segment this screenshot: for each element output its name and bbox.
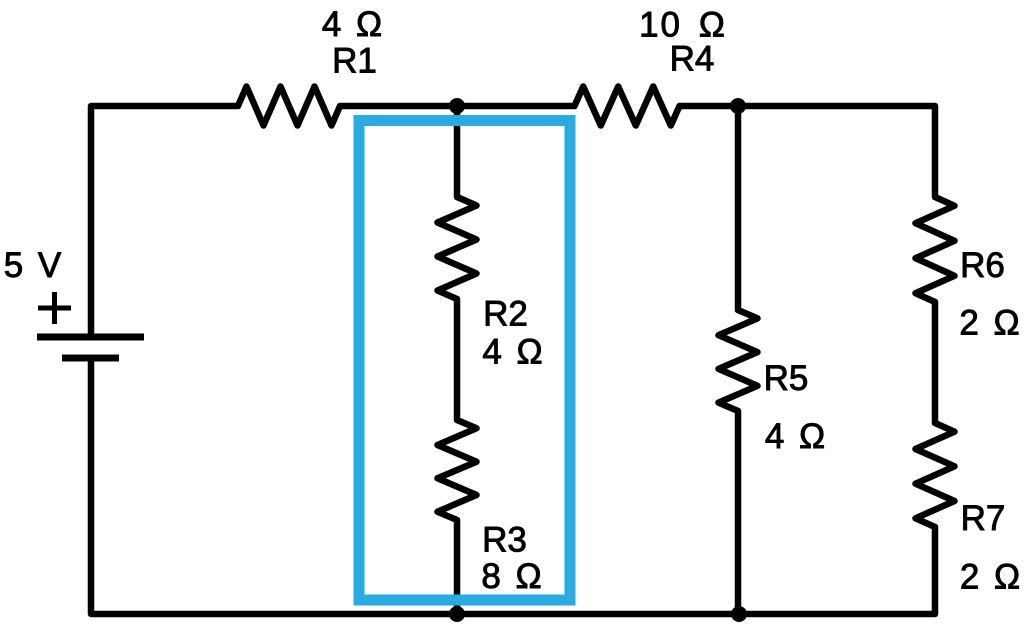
wire from R5 down to node D [735, 419, 742, 614]
wire between R2 and R3 [454, 307, 461, 412]
resistor R2 [438, 189, 477, 307]
resistor R6 [916, 189, 955, 310]
svg-text:R6: R6 [960, 246, 1005, 285]
wire from R3 down to node C [454, 528, 461, 614]
svg-text:4 Ω: 4 Ω [322, 5, 382, 44]
battery V1 plus sign [38, 292, 71, 324]
svg-text:R7: R7 [961, 499, 1006, 538]
svg-text:2 Ω: 2 Ω [959, 304, 1019, 343]
svg-text:R4: R4 [670, 40, 715, 79]
wire from node A down to R2 [454, 106, 461, 189]
node C junction dot bottom of R2 branch [449, 606, 465, 622]
svg-text:R2: R2 [483, 295, 528, 334]
resistor R4 [566, 87, 688, 126]
resistor R1 [230, 87, 348, 126]
svg-text:R5: R5 [764, 359, 809, 398]
wire top rail from R4 through node B, top-right corner, right rail down to R6 [688, 106, 935, 189]
svg-text:R1: R1 [332, 42, 377, 81]
battery V1 short plate [62, 355, 119, 362]
wire left rail upper and top-left corner to R1 [91, 106, 230, 337]
node B junction dot top of R5 branch [730, 98, 746, 114]
resistor R3 [438, 412, 477, 528]
wire left rail lower, bottom rail, bottom-right corner up to R7 [91, 358, 935, 614]
wire right rail between R6 and R7 [932, 310, 939, 415]
svg-text:4 Ω: 4 Ω [765, 417, 825, 456]
highlight box around R2 R3 branch [359, 121, 570, 601]
svg-text:5 V: 5 V [4, 246, 62, 285]
svg-text:2 Ω: 2 Ω [960, 558, 1020, 597]
wire top rail between R1 and R4 through node A [348, 103, 566, 110]
resistor R7 [916, 415, 955, 535]
node D junction dot bottom of R5 branch [731, 606, 747, 622]
battery V1 long plate [37, 334, 144, 341]
resistor R5 [719, 302, 758, 419]
svg-text:8 Ω: 8 Ω [481, 557, 541, 596]
svg-text:R3: R3 [482, 521, 527, 560]
wire from node B down to R5 [735, 106, 742, 302]
svg-text:4 Ω: 4 Ω [482, 333, 542, 372]
node A junction dot top of R2 branch [449, 98, 465, 114]
